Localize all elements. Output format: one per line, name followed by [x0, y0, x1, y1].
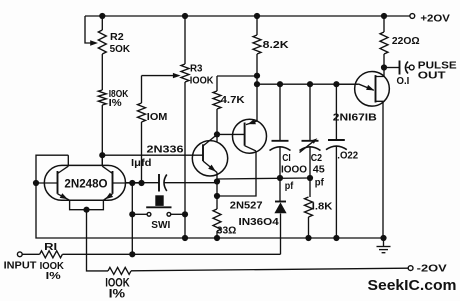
- svg-text:INPUT: INPUT: [4, 259, 37, 271]
- svg-text:I.8K: I.8K: [312, 200, 333, 212]
- svg-text:IOM: IOM: [147, 111, 168, 123]
- svg-text:R3: R3: [190, 63, 203, 75]
- svg-text:pf: pf: [315, 178, 325, 189]
- svg-text:33Ω: 33Ω: [217, 225, 237, 237]
- svg-text:4.7K: 4.7K: [221, 94, 245, 106]
- svg-text:8.2K: 8.2K: [263, 39, 289, 51]
- svg-text:2N527: 2N527: [230, 199, 263, 211]
- svg-text:C2: C2: [311, 153, 323, 164]
- svg-text:.O22: .O22: [337, 149, 358, 161]
- svg-text:OUT: OUT: [418, 69, 447, 81]
- svg-text:45: 45: [313, 165, 325, 176]
- svg-text:2N248O: 2N248O: [64, 178, 107, 190]
- svg-text:RI: RI: [44, 241, 57, 253]
- svg-text:2N336: 2N336: [147, 143, 184, 155]
- svg-text:IOOK: IOOK: [190, 75, 214, 87]
- svg-text:I%: I%: [46, 270, 62, 282]
- svg-text:5OK: 5OK: [110, 44, 131, 55]
- svg-text:pf: pf: [285, 181, 294, 192]
- svg-text:+2OV: +2OV: [420, 12, 450, 24]
- svg-text:O.I: O.I: [397, 75, 410, 87]
- svg-text:-2OV: -2OV: [417, 263, 447, 275]
- svg-text:Iμfd: Iμfd: [131, 158, 152, 169]
- svg-text:R2: R2: [110, 32, 124, 43]
- svg-text:IN36O4: IN36O4: [239, 216, 279, 228]
- svg-text:IOOO: IOOO: [281, 165, 307, 176]
- svg-text:SeekIC.com: SeekIC.com: [368, 277, 457, 294]
- svg-text:2NI67IB: 2NI67IB: [333, 112, 377, 124]
- svg-text:22OΩ: 22OΩ: [392, 35, 420, 47]
- svg-text:SWI: SWI: [151, 219, 170, 231]
- svg-text:CI: CI: [282, 153, 291, 164]
- svg-text:I%: I%: [109, 98, 122, 109]
- svg-text:I%: I%: [109, 286, 126, 300]
